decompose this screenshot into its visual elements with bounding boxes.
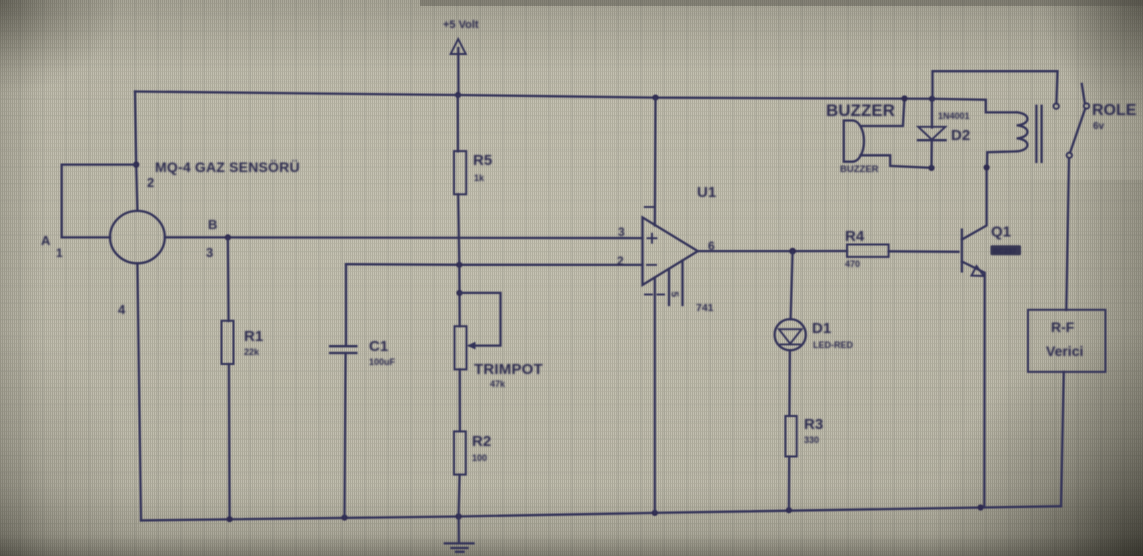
wire: sensor pin4 down to ground bus [137, 263, 141, 520]
gas sensor MQ-4 body [110, 211, 165, 263]
svg-text:5: 5 [669, 292, 680, 298]
svg-text:R1: R1 [244, 328, 263, 345]
wire: R4 to Q1 base [889, 250, 959, 253]
node: C1/bus [341, 515, 347, 521]
svg-text:100uF: 100uF [369, 357, 396, 367]
svg-text:4: 4 [118, 302, 126, 317]
svg-text:470: 470 [845, 259, 860, 269]
node: D2 top / bus [929, 96, 935, 102]
svg-text:R-F: R-F [1051, 319, 1075, 335]
svg-text:2: 2 [147, 175, 154, 190]
svg-text:1: 1 [56, 246, 63, 260]
diode D2 [918, 99, 946, 168]
buzzer BZ1 [844, 121, 864, 162]
wire: sensor pin1-pin2 loop [62, 165, 137, 238]
svg-text:22k: 22k [244, 347, 260, 357]
wire: trimpot to R2 [459, 369, 461, 431]
svg-text:MQ-4 GAZ SENSÖRÜ: MQ-4 GAZ SENSÖRÜ [155, 159, 300, 175]
node: trimpot wiper loop junction [456, 290, 462, 296]
opamp stub pin 5 [681, 261, 683, 306]
switch blade [1070, 109, 1085, 153]
power +5V supply symbol [443, 19, 479, 95]
node: +5V / top bus junction [455, 92, 461, 98]
wire: switch pole down to RF box [1066, 158, 1069, 310]
svg-text:D2: D2 [951, 127, 970, 144]
svg-text:LED-RED: LED-RED [813, 340, 853, 350]
opamp minus glyph [647, 264, 656, 266]
switch pole terminal [1067, 153, 1072, 158]
capacitor C1 [330, 346, 356, 353]
resistor R4 [847, 245, 889, 257]
ground symbol [445, 517, 474, 552]
wire: buzzer bottom terminal [861, 155, 932, 168]
node: Q1 emitter/bus [978, 504, 984, 510]
wire: RF box bottom to ground bus corner [1061, 372, 1064, 506]
svg-text:741: 741 [696, 302, 714, 314]
node: R2/bus [455, 513, 461, 519]
wire: opamp output to R4 [698, 250, 847, 252]
svg-text:Q1: Q1 [991, 224, 1011, 241]
wire: left vertical from bus to sensor pin2 [135, 92, 137, 211]
node: opamp pin7 supply junction [652, 95, 658, 101]
svg-text:ROLE: ROLE [1092, 102, 1137, 119]
wire: D1 to R3 [788, 350, 791, 416]
wire: bottom ground bus [141, 506, 1061, 520]
node: coil / collector junction [984, 164, 990, 170]
switch contact terminal 1 [1054, 104, 1059, 109]
svg-text:47k: 47k [490, 379, 506, 389]
node: R3/bus [786, 507, 792, 513]
wire: R2 bottom lead to ground bus [459, 475, 460, 517]
wire: R1 bottom lead to ground bus [228, 364, 231, 519]
svg-text:R2: R2 [472, 433, 491, 450]
pin number ticks below opamp [645, 294, 664, 296]
wire: top supply bus [135, 92, 932, 99]
svg-text:R4: R4 [845, 228, 865, 245]
LED D1 [775, 319, 806, 350]
svg-text:BUZZER: BUZZER [826, 101, 895, 120]
svg-text:Verici: Verici [1046, 343, 1083, 359]
svg-text:100: 100 [472, 453, 487, 463]
svg-text:C1: C1 [369, 338, 388, 355]
relay core bars [1036, 106, 1041, 162]
svg-text:3: 3 [206, 245, 213, 260]
trimpot wiper arrowhead [467, 342, 476, 350]
node: D2 bottom junction [928, 165, 934, 171]
svg-text:6v: 6v [1093, 121, 1105, 132]
svg-text:BC237: BC237 [993, 247, 1016, 256]
node: output / D1 branch [789, 248, 796, 255]
node B junction [225, 234, 231, 240]
relay RL1 coil [1017, 112, 1028, 151]
svg-text:+5 Volt: +5 Volt [443, 19, 479, 31]
wire: relay frame top [933, 71, 1058, 103]
svg-text:U1: U1 [697, 184, 716, 201]
svg-text:D1: D1 [812, 320, 831, 337]
wire: bus to relay coil top [932, 99, 1017, 113]
wire: R3 to ground bus [788, 457, 791, 511]
wire: opamp pin2 (inverting) [346, 263, 643, 266]
wire: opamp pin7 from bus [654, 98, 657, 226]
node: buzzer/bus [901, 95, 907, 101]
capacitor C1 top lead from opamp pin2 wire [345, 264, 347, 345]
wire: D1 branch vertical [791, 251, 793, 319]
resistor R3 [785, 416, 796, 457]
svg-text:2: 2 [617, 254, 624, 268]
node: pin2 / R5-trimpot junction [456, 262, 462, 268]
opamp plus glyph [648, 234, 657, 243]
resistor R5 [454, 151, 466, 194]
node: R1/bus [227, 516, 233, 522]
svg-text:330: 330 [804, 435, 819, 445]
wire: relay coil bottom [987, 151, 1017, 167]
svg-text:3: 3 [618, 225, 625, 239]
wire: C1 bottom lead to ground bus [345, 353, 346, 518]
wire: buzzer top terminal to bus [861, 99, 905, 127]
trimpot body [455, 326, 467, 369]
node: sensor pin2 junction [133, 161, 139, 167]
svg-text:BUZZER: BUZZER [840, 164, 879, 175]
svg-text:R3: R3 [804, 416, 823, 433]
resistor R1 [222, 321, 234, 364]
wire: trimpot wiper loop [460, 293, 501, 346]
wire: R1 top lead [227, 237, 230, 321]
svg-text:B: B [208, 217, 217, 232]
wire: R5 bottom lead down to trimpot [458, 194, 460, 326]
svg-text:1N4001: 1N4001 [938, 111, 970, 121]
svg-text:TRIMPOT: TRIMPOT [474, 361, 543, 378]
opamp stub pin 1 [668, 269, 670, 305]
wire: opamp pin4 down to ground bus [654, 278, 656, 513]
transistor Q1 [962, 168, 987, 508]
RF transmitter box [1028, 310, 1105, 372]
svg-text:1k: 1k [474, 173, 485, 183]
switch contact terminal 2 [1084, 103, 1089, 108]
svg-text:R5: R5 [473, 152, 492, 169]
op-amp U1 [643, 217, 698, 285]
wire: stub above terminal 2 [1082, 84, 1085, 103]
pin7 tick [645, 206, 653, 208]
node: opamp pin4/bus [652, 510, 658, 516]
resistor R2 [454, 431, 466, 474]
svg-text:A: A [41, 233, 51, 248]
wire: sensor output B to op-amp pin3 [165, 236, 643, 239]
wire: R5 top lead [457, 95, 460, 151]
